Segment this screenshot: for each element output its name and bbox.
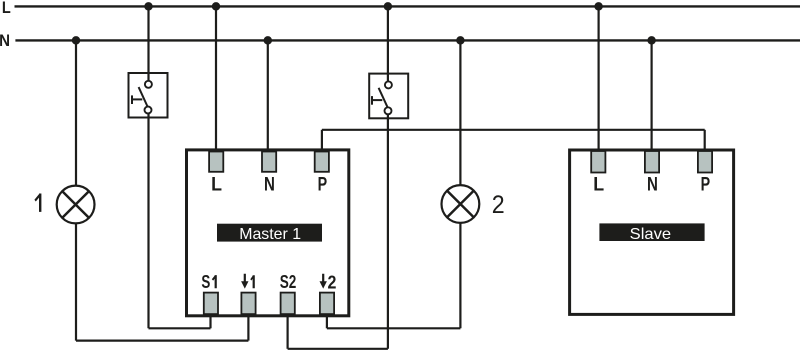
slave terminal L pad xyxy=(591,151,605,173)
push-button switch 1 xyxy=(129,73,168,118)
wire terminal S1 vertical xyxy=(209,312,211,328)
junction L / slave L xyxy=(594,2,603,11)
svg-text:N: N xyxy=(264,174,275,196)
wire switch S2 bottom xyxy=(387,115,389,349)
net N rail xyxy=(15,39,800,41)
master name plate xyxy=(217,224,322,242)
wire master P vertical xyxy=(321,130,323,152)
svg-text:S2: S2 xyxy=(280,272,297,292)
label lamp 1 xyxy=(34,194,41,212)
wire lamp 2 bottom xyxy=(459,223,461,328)
lamp 2 xyxy=(442,185,480,223)
master terminal P pad xyxy=(315,152,329,172)
wire terminal S2 horizontal xyxy=(288,348,388,350)
svg-text:P: P xyxy=(701,174,711,196)
master unit box xyxy=(187,150,349,316)
junction N / lamp 2 xyxy=(456,36,465,45)
lamp 1 xyxy=(57,186,95,224)
wire P horizontal (master P to slave P) xyxy=(322,129,705,131)
wire switch S1 bottom xyxy=(147,114,149,329)
wire master N xyxy=(267,40,269,152)
svg-text:L: L xyxy=(2,0,11,17)
svg-text:N: N xyxy=(647,174,658,196)
wire terminal D2 vertical xyxy=(326,312,328,328)
master terminal N pad xyxy=(262,152,276,172)
svg-text:2: 2 xyxy=(492,191,505,219)
svg-text:S: S xyxy=(201,272,210,292)
junction L / switch 2 xyxy=(384,2,393,11)
wire terminal S1 horizontal xyxy=(149,327,211,329)
master terminal S2 pad xyxy=(281,293,295,315)
junction N / slave N xyxy=(647,36,656,45)
junction N / lamp 1 xyxy=(72,36,81,45)
svg-text:2: 2 xyxy=(328,272,337,292)
slave terminal P pad xyxy=(698,151,712,173)
master terminal D1 pad xyxy=(241,293,255,315)
wire terminal D1 horizontal xyxy=(76,340,248,342)
pin label D1 arrow xyxy=(241,274,248,289)
slave unit box xyxy=(570,150,734,314)
svg-text:L: L xyxy=(593,174,604,196)
wire master L xyxy=(215,6,217,152)
master terminal L pad xyxy=(209,152,223,172)
master terminal S1 pad xyxy=(204,293,218,315)
svg-text:Slave: Slave xyxy=(630,226,672,243)
wire terminal S2 vertical xyxy=(287,312,289,349)
wire lamp 1 bottom xyxy=(75,223,77,340)
wire switch S1 top (L to push-button 1) xyxy=(147,6,149,81)
junction L / master L xyxy=(212,2,221,11)
wire slave L xyxy=(597,6,599,152)
svg-text:N: N xyxy=(0,32,10,50)
junction N / master N xyxy=(264,36,273,45)
svg-text:P: P xyxy=(318,174,328,196)
junction L / switch 1 xyxy=(144,2,153,11)
pin label D1 digit xyxy=(250,275,255,288)
wire slave P vertical xyxy=(704,130,706,152)
slave name plate xyxy=(599,223,704,241)
svg-text:Master 1: Master 1 xyxy=(239,226,301,243)
wire lamp 1 top (N to lamp 1) xyxy=(75,40,77,185)
wire lamp 2 top (N to lamp 2) xyxy=(459,40,461,185)
wire terminal D1 vertical xyxy=(247,312,249,341)
wire switch S2 top (L to push-button 2) xyxy=(387,6,389,81)
wire terminal D2 horizontal xyxy=(327,327,461,329)
slave terminal N pad xyxy=(645,151,659,173)
master terminal D2 pad xyxy=(320,293,334,315)
push-button switch 2 xyxy=(369,74,408,119)
svg-text:L: L xyxy=(211,174,222,196)
pin label D2 arrow xyxy=(320,274,327,289)
net L rail xyxy=(15,5,800,7)
wire slave N xyxy=(650,40,652,152)
